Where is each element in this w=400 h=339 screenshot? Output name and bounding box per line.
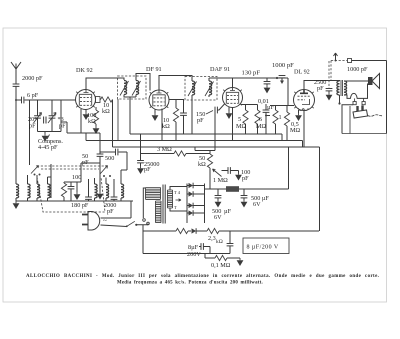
wire T1 to bridge (143, 187, 187, 219)
node A (15, 99, 17, 101)
plug pin 1 (356, 106, 358, 111)
svg-text:8 µF/200 V: 8 µF/200 V (247, 245, 279, 251)
T1 secondary winding (168, 190, 173, 208)
trimmer arrow 1 (34, 113, 42, 124)
capacitor 180 pF (88, 179, 90, 197)
IF2 coil secondary (209, 81, 212, 95)
plug pin 2 (361, 105, 363, 110)
mains terminal dot 1 (143, 219, 146, 222)
capacitor 100 group (70, 182, 72, 186)
filter ballast (226, 186, 239, 192)
dashed tuning gang line (37, 165, 108, 167)
wire plate V2 to IF2 (159, 76, 192, 91)
svg-text:6: 6 (259, 116, 262, 123)
ground 100 group (76, 182, 78, 192)
svg-text:1000 pF: 1000 pF (347, 66, 368, 73)
capacitor 150 pF diode (215, 105, 224, 151)
bus 3 (113, 146, 320, 148)
resistor 10 kOhm (101, 97, 113, 102)
svg-text:130 pF: 130 pF (242, 70, 261, 77)
output transformer T2 secondary (344, 81, 347, 95)
page frame (3, 28, 387, 302)
dashed gang linkage (37, 177, 105, 212)
wire antenna down (15, 100, 17, 184)
wire T2 secondary to speaker bottom (344, 84, 369, 98)
coil L6 (106, 184, 109, 198)
svg-text:kΩ: kΩ (88, 118, 96, 125)
coil L7 (121, 184, 124, 198)
T2 core (341, 80, 343, 96)
wire IF2 primary bottom (191, 95, 193, 134)
resistor 1 (275, 106, 277, 111)
svg-text:Media frequenza a 465 kc/s. Po: Media frequenza a 465 kc/s. Potenza d'us… (117, 281, 263, 286)
jack enclosure bottom (342, 133, 387, 135)
svg-text:6V: 6V (253, 201, 261, 208)
svg-text:pF: pF (107, 208, 114, 215)
jack enclosure left (349, 106, 351, 134)
svg-text:4-45 pF: 4-45 pF (38, 144, 58, 151)
dashed supply line (331, 61, 348, 82)
resistor 3 MOhm (141, 153, 211, 155)
wire supply right (352, 61, 387, 134)
wire plate bus V3 (209, 78, 288, 106)
capacitor 10 uF (217, 189, 219, 196)
output transformer T2 primary (337, 81, 340, 95)
wire ground bus left (16, 200, 133, 202)
wire T2 to speaker (344, 80, 369, 82)
svg-text:MΩ: MΩ (236, 123, 247, 130)
pointer 150 pF (206, 111, 213, 115)
wire branch E (61, 100, 67, 133)
IF1 coil secondary (136, 81, 139, 95)
speaker LS (369, 74, 380, 89)
capacitor 20 pF trimmer (37, 100, 39, 132)
svg-text:1 MΩ: 1 MΩ (213, 177, 228, 184)
resistor 50 kOhm pot (195, 147, 215, 154)
wire IF2 secondary top (209, 78, 233, 97)
grid cap rect V1 (96, 97, 101, 103)
svg-text:2000 pF: 2000 pF (22, 75, 43, 82)
trimmer arrow 2 (48, 113, 56, 124)
svg-text:pF: pF (59, 123, 66, 130)
coil L2 (27, 175, 29, 184)
capacitor V2 bypass (180, 113, 187, 115)
tube V4 pin ticks (294, 92, 313, 108)
capacitor 1000 pF (276, 77, 278, 79)
svg-text:180 pF: 180 pF (71, 202, 89, 209)
wire plate V1 to IF1 (86, 78, 124, 90)
ground V1 (85, 110, 87, 113)
mains plug (82, 212, 100, 231)
capacitor 6 pF (22, 97, 24, 104)
wire short bus (67, 133, 100, 141)
tube V2 pin ticks (150, 92, 169, 108)
resistor output (176, 228, 188, 233)
svg-text:MΩ: MΩ (256, 123, 267, 130)
capacitor 2000 pF padder (113, 179, 115, 197)
wire plug to switch (101, 225, 127, 227)
rectifier rail left (186, 184, 188, 224)
wire DC output (205, 188, 227, 190)
bus 1 (130, 134, 282, 141)
wire IF1 primary bottom (124, 95, 136, 135)
capacitor fixed mid (44, 117, 46, 124)
ground antenna (13, 201, 20, 209)
wire to band switch (29, 100, 31, 150)
svg-text:100: 100 (72, 174, 81, 181)
mains terminal dot 2 (147, 222, 150, 225)
capacitor 25000 pF (140, 134, 142, 166)
coil L3 (36, 175, 38, 184)
wire osc top (100, 151, 127, 153)
capacitor 2500 pF (328, 61, 330, 88)
capacitor 500 (116, 149, 118, 156)
resistor 100 ohm (63, 182, 65, 183)
svg-text:200V: 200V (187, 251, 201, 258)
plug cord (368, 115, 382, 117)
svg-text:DL 92: DL 92 (294, 69, 310, 76)
svg-text:0,1 MΩ: 0,1 MΩ (211, 262, 231, 269)
svg-text:MΩ: MΩ (290, 127, 301, 134)
wire cathode V3 (232, 108, 234, 141)
svg-text:pF: pF (144, 166, 151, 173)
band switch S1a (29, 150, 31, 165)
resistor 0,5 MOhm (286, 106, 288, 113)
phone plug body (353, 110, 368, 118)
wire osc coils top (95, 152, 128, 184)
box 8 uF/200 V (243, 238, 289, 254)
wire V2 right pin (169, 100, 184, 114)
svg-text:kΩ: kΩ (216, 239, 223, 245)
pot wiper 1 MOhm (213, 169, 222, 177)
svg-text:T: T (174, 205, 177, 210)
coil L4 (48, 164, 52, 198)
wire resistor to osc (112, 100, 114, 148)
svg-text:6V: 6V (214, 214, 222, 221)
connector square (348, 59, 352, 63)
wire filter to right (239, 147, 289, 189)
svg-text:500: 500 (105, 155, 114, 162)
T2 primary return (339, 95, 341, 103)
svg-text:2,3: 2,3 (208, 235, 216, 242)
antenna coil L1 (16, 184, 19, 198)
IF1 tuning arrows (120, 81, 141, 96)
svg-text:8µF: 8µF (188, 244, 199, 251)
rectifier rail right (204, 184, 206, 224)
svg-text:kΩ: kΩ (102, 108, 110, 115)
wire IF1 shield (117, 99, 119, 141)
wire switch to T1 (136, 224, 148, 254)
diode output (192, 228, 197, 234)
IF2 tuning arrows (188, 82, 214, 97)
switch arm S1a (31, 166, 39, 174)
T1 primary winding lower (156, 201, 162, 223)
svg-text:DAF 91: DAF 91 (210, 66, 230, 73)
resistor 6 MOhm (257, 105, 259, 111)
svg-text:1000 pF: 1000 pF (272, 62, 294, 69)
capacitor *3 pF trimmer (51, 100, 53, 132)
svg-text:DF 91: DF 91 (146, 66, 162, 73)
svg-text:6 pF: 6 pF (27, 92, 39, 99)
jack terminal 2 (362, 102, 365, 105)
tube V1 pin ticks (76, 92, 95, 108)
svg-text:kΩ: kΩ (198, 161, 206, 168)
svg-text:ALLOCCHIO BACCHINI - Mod. Juni: ALLOCCHIO BACCHINI - Mod. Junior III per… (26, 274, 379, 279)
jack ground wire (342, 105, 353, 134)
rectifier diode 3 (187, 205, 205, 207)
ground V3 (228, 107, 230, 112)
wire cathode V4 (303, 111, 305, 148)
switch S2 (126, 225, 128, 227)
trimmer bottom jumper (38, 131, 62, 133)
T1 primary winding upper (146, 188, 161, 200)
tube V3 pin ticks (223, 90, 242, 106)
capacitor 500 uF (243, 189, 245, 196)
rectifier diode 1 (187, 185, 205, 187)
IF1 coil primary (124, 81, 127, 95)
T1 tap arrow (176, 199, 182, 201)
ground trimmer (44, 132, 46, 134)
pointer arrow compens (47, 135, 50, 140)
wire plug neutral to ground bus (101, 201, 132, 218)
wire antenna to node (15, 86, 17, 100)
svg-text:pF: pF (317, 85, 324, 92)
wire grid line V4 (270, 105, 294, 107)
wire cathode V2 (161, 109, 163, 141)
resistor 100 kOhm (95, 107, 97, 110)
capacitor 2000 pF (antenna series) (13, 84, 20, 86)
IF transformer 1 (118, 76, 147, 99)
wire plate V4 to output transformer (304, 81, 340, 90)
svg-text:pF: pF (29, 123, 36, 130)
bus 2 (86, 141, 303, 148)
svg-text:µF: µF (224, 208, 232, 215)
svg-text:3 MΩ: 3 MΩ (157, 146, 172, 153)
rectifier diode 2 (187, 193, 205, 195)
svg-text:1: 1 (279, 114, 282, 121)
antenna (11, 62, 21, 84)
resistor 2,3 kOhm (207, 228, 219, 233)
wire grid line y=100 (16, 99, 76, 101)
rectifier diode 4 (187, 212, 205, 214)
jack terminal 1 (353, 102, 356, 105)
svg-text:pF: pF (197, 117, 204, 124)
coil L5 (95, 184, 98, 198)
dashed switch link (41, 168, 99, 170)
wire cathode chain (143, 230, 176, 232)
capacitor 100 pF (228, 167, 230, 174)
wire cathode V1 (80, 109, 82, 133)
B+ arrow (334, 53, 338, 61)
switch arm S1b (100, 166, 108, 175)
wire coil bottom (15, 198, 17, 201)
wire V1 to resistor (99, 99, 102, 101)
resistor 0,1 MOhm (205, 254, 215, 259)
wire IF1 secondary (136, 74, 150, 98)
T1 core (163, 185, 165, 224)
IF2 coil primary (192, 81, 195, 95)
svg-text:kΩ: kΩ (162, 123, 170, 130)
svg-text:5: 5 (238, 116, 241, 123)
resistor 5 MOhm (241, 105, 258, 111)
svg-text:DK 92: DK 92 (76, 67, 93, 74)
wire 100 group top (64, 163, 100, 182)
capacitor 50 pF (99, 133, 101, 192)
ground V2 (154, 109, 156, 113)
svg-text:T 4: T 4 (174, 190, 181, 195)
wire speaker return (319, 147, 321, 231)
ground V4 (298, 110, 300, 113)
capacitor 130 pF (266, 78, 268, 81)
IF transformer 2 (185, 77, 217, 101)
wire bottom chain (143, 253, 230, 255)
svg-text:pF: pF (242, 175, 249, 182)
capacitor 8uF/200V (229, 231, 231, 244)
resistor 10 kOhm V2 (173, 108, 178, 122)
